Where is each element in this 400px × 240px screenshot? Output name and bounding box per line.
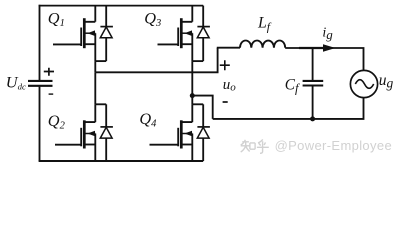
wire top rail (39, 5, 204, 7)
Q3 body arrow (184, 30, 192, 36)
Q4 gate lead (150, 144, 179, 146)
Q3 source-anode bar (192, 60, 203, 62)
wire bottom right (213, 98, 364, 119)
wire inductor to grid (285, 48, 363, 71)
Q1 body arrow (87, 30, 95, 36)
Q1 source lead (84, 43, 95, 45)
Q2 channel bar (83, 120, 86, 148)
Q4 drain lead (181, 104, 192, 122)
Q1 body diode triangle (100, 27, 112, 38)
Q4 drain-cathode bar (192, 103, 203, 105)
Q3 body lead (181, 32, 192, 34)
current ig arrow (299, 47, 324, 49)
Q3 body diode anode lead (202, 38, 204, 61)
Q2 body diode cathode lead (105, 104, 107, 127)
Q2 drain-cathode bar (95, 103, 106, 105)
label plus dc (44, 68, 54, 76)
wire node A to Q2 drain elbow (94, 72, 96, 104)
junction Cf dot (310, 116, 315, 121)
Q2 gate bar (80, 128, 82, 147)
svg-text:ug: ug (379, 72, 394, 91)
svg-text:Q3: Q3 (144, 8, 161, 29)
Q4 body diode cathode lead (202, 104, 204, 127)
wire bottom rail (39, 160, 204, 162)
Q1 gate bar (80, 28, 82, 47)
svg-text:Q2: Q2 (48, 111, 66, 132)
label minus out (223, 101, 228, 103)
Q4 channel bar (180, 120, 183, 148)
wire left rail upper (39, 5, 41, 80)
Q4 body diode anode lead to bottom rail (202, 138, 204, 161)
transistor Q4 (N-MOSFET with body diode) (150, 96, 210, 161)
Q3 gate bar (177, 28, 179, 47)
Q1 channel bar (83, 18, 86, 48)
svg-text:Cf: Cf (285, 76, 300, 95)
Q2 drain lead (84, 104, 95, 122)
svg-text:Lf: Lf (257, 15, 272, 34)
Q1 drain lead to top rail (84, 6, 95, 22)
transistor Q1 (N-MOSFET with body diode) (53, 6, 113, 73)
Q3 gate lead (158, 43, 179, 45)
Q4 body lead (181, 133, 192, 135)
Q4 body diode triangle (197, 127, 209, 138)
capacitor Cf (312, 48, 314, 80)
Q2 source vertical to bottom rail (94, 134, 96, 162)
ac source ug circle (350, 70, 377, 97)
dc source Udc plates (28, 81, 53, 86)
node B wire from dot (192, 96, 212, 119)
Q3 source vertical (191, 33, 193, 61)
transistor Q2 (N-MOSFET with body diode) (55, 72, 113, 161)
label minus dc (49, 93, 54, 95)
Q1 source-anode bar (95, 60, 106, 62)
Q3 body diode cathode lead (202, 6, 204, 27)
label plus out (220, 60, 230, 70)
Q3 channel bar (180, 18, 183, 48)
Q2 body diode anode lead to bottom rail (105, 138, 107, 161)
junction node B dot (190, 93, 195, 98)
svg-text:Q1: Q1 (48, 8, 65, 29)
Q2 body diode cathode bar (100, 126, 113, 128)
Q3 body diode cathode bar (197, 26, 210, 28)
Q2 source lead (84, 144, 95, 146)
wire Q3 source to node B (crosses node A wire) (191, 61, 193, 96)
wire node B to Q4 drain elbow (191, 96, 193, 105)
Q1 body lead (84, 32, 95, 34)
node A wire to output plus terminal (95, 48, 217, 73)
svg-text:uo: uo (223, 77, 237, 94)
Q4 gate bar (177, 128, 179, 147)
svg-text:Udc: Udc (6, 72, 26, 91)
Q1 body diode cathode bar (100, 26, 113, 28)
Q3 source lead (181, 43, 192, 45)
Q4 body arrow (184, 131, 192, 137)
transistor Q3 (N-MOSFET with body diode) (158, 6, 210, 96)
Q2 body arrow (87, 131, 95, 137)
Q1 source vertical (94, 33, 96, 61)
svg-text:ig: ig (322, 26, 333, 43)
Q4 source lead (181, 144, 192, 146)
Q2 body diode triangle (100, 127, 112, 138)
wire Q1 source to node A (94, 61, 96, 72)
svg-text:Q4: Q4 (139, 109, 157, 130)
Q3 drain lead to top rail (181, 6, 192, 22)
wire left rail lower (39, 87, 41, 161)
Q2 body lead (84, 133, 95, 135)
Q1 body diode anode lead (105, 38, 107, 61)
svg-text:@Power-Employee: @Power-Employee (275, 138, 392, 153)
Q3 body diode triangle (197, 27, 209, 38)
Q4 body diode cathode bar (197, 126, 210, 128)
Q2 gate lead (55, 144, 81, 146)
Q1 body diode cathode lead (105, 6, 107, 27)
inductor Lf coil (240, 40, 285, 47)
Q4 source vertical to bottom rail (191, 134, 193, 162)
wire corner to inductor (217, 47, 240, 49)
Q1 gate lead (53, 43, 81, 45)
watermark zhihu glyphs (241, 139, 269, 153)
